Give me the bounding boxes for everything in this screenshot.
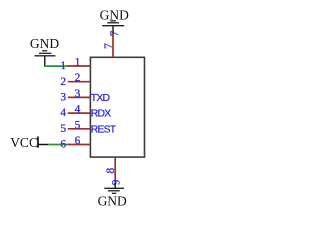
svg-text:7: 7	[109, 30, 121, 36]
pin 2 wire	[68, 81, 91, 83]
svg-text:6: 6	[75, 135, 81, 147]
svg-text:TXD: TXD	[91, 93, 110, 104]
svg-text:5: 5	[60, 123, 66, 135]
svg-text:REST: REST	[91, 124, 117, 135]
pin 3 wire	[68, 96, 91, 98]
svg-text:VCC: VCC	[10, 135, 38, 150]
svg-text:8: 8	[105, 167, 117, 173]
svg-text:1: 1	[75, 57, 81, 69]
pin 1 wire	[68, 65, 91, 67]
ground GND1 (top-left)	[30, 36, 59, 66]
power port VCC	[10, 135, 48, 150]
pin 7 wire (top)	[112, 34, 114, 57]
svg-text:1: 1	[60, 60, 66, 72]
pin 8 wire (bottom)	[114, 157, 116, 182]
svg-text:GND: GND	[30, 36, 59, 51]
svg-text:3: 3	[60, 92, 66, 104]
svg-text:RDX: RDX	[91, 109, 111, 120]
svg-text:4: 4	[75, 104, 81, 116]
pin 4 wire	[68, 112, 91, 114]
svg-text:GND: GND	[98, 193, 127, 208]
svg-text:7: 7	[103, 43, 115, 49]
ground GND2 (top)	[100, 7, 129, 34]
svg-text:5: 5	[75, 119, 81, 131]
svg-text:4: 4	[60, 107, 66, 119]
svg-text:3: 3	[75, 88, 81, 100]
ground GND3 (bottom)	[98, 182, 127, 208]
svg-text:6: 6	[60, 139, 66, 151]
pin 5 wire	[68, 128, 91, 130]
IC body U1	[90, 57, 144, 157]
wire GND1 to pin 1 (green)	[44, 65, 68, 67]
pin 6 wire	[68, 144, 91, 146]
svg-text:2: 2	[75, 72, 81, 84]
svg-text:2: 2	[60, 76, 66, 88]
wire VCC to pin 6 (green)	[48, 144, 68, 146]
svg-text:GND: GND	[100, 7, 129, 22]
